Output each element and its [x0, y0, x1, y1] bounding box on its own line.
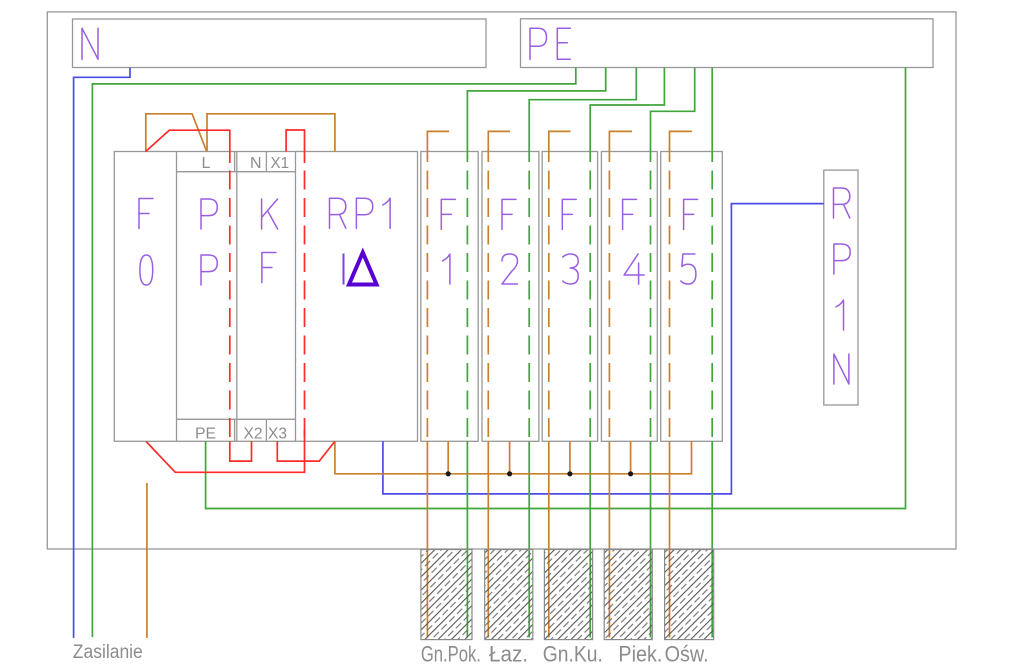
svg-text:X3: X3 [268, 426, 287, 443]
wire PE branch green to F4 [651, 68, 695, 638]
load box Gn.Pok. [421, 550, 472, 640]
svg-text:N: N [250, 155, 262, 172]
busbar PE box [521, 19, 934, 68]
RCD I-delta symbol [344, 253, 377, 285]
wire L branch orange F4 [609, 131, 632, 637]
busbar N box [73, 19, 487, 68]
wire red X3 to KF bottom [277, 441, 334, 461]
outer enclosure frame [47, 12, 956, 549]
wire L red X1 jog into RP1 [286, 130, 304, 441]
junction dots on phase bus [446, 471, 634, 476]
svg-text:Ośw.: Ośw. [665, 642, 709, 667]
svg-text:Łaz.: Łaz. [489, 642, 528, 667]
breaker column F5 box [661, 152, 723, 442]
main panel body [114, 152, 417, 442]
wire L jumper orange PP to KF [207, 114, 335, 152]
breaker F5 label [681, 199, 698, 284]
breaker column F1 box [421, 152, 478, 442]
svg-text:Piek.: Piek. [618, 642, 662, 667]
load box Laz. [485, 550, 533, 640]
breaker F4 label [623, 199, 645, 284]
wire L red F0 top to L terminal [146, 130, 230, 441]
svg-text:Gn.Pok.: Gn.Pok. [421, 642, 481, 667]
wire PE loop green right side to panel PE terminal [206, 68, 906, 509]
wire PE feed green from PE busbar to supply [92, 68, 575, 638]
wire L branch orange F1 [427, 131, 449, 637]
breaker column F4 box [601, 152, 657, 442]
terminal footer row PE X2 X3 [177, 419, 296, 441]
busbar N label [82, 28, 98, 59]
wire L jumper orange F0 to PP [146, 114, 207, 152]
breaker column F2 box [482, 152, 539, 442]
wire N link blue panel to RP1N [383, 204, 824, 494]
breaker F3 label [562, 199, 578, 284]
wire PE branch green to F1 [467, 68, 605, 638]
svg-text:X1: X1 [271, 155, 290, 172]
wire L branch orange F3 [549, 131, 571, 637]
wire PE branch green to F3 [590, 68, 664, 638]
switch PP label [201, 199, 217, 285]
svg-text:Gn.Ku.: Gn.Ku. [543, 642, 603, 667]
wire red RP1 bottom to F0 bottom [146, 430, 304, 473]
wire L branch orange F5 [670, 131, 692, 637]
wire red PP bottom to X2 [230, 441, 252, 461]
wire PE branch green to F5 [711, 68, 713, 638]
wire L branch orange F2 [488, 131, 510, 637]
breaker F0 label [139, 199, 153, 286]
load box Gn.Ku. [544, 550, 592, 640]
wire N feed blue from N busbar to supply [74, 68, 130, 638]
wire L phase bus orange below panel with risers [335, 441, 692, 474]
svg-text:PE: PE [195, 426, 216, 443]
busbar PE label [530, 28, 570, 59]
terminal header row L N X1 [177, 152, 296, 172]
svg-text:L: L [202, 155, 211, 172]
svg-text:Zasilanie: Zasilanie [73, 642, 143, 663]
wire L supply orange bottom [146, 483, 148, 638]
breaker F2 label [502, 199, 518, 284]
subpanel RP1N label [834, 188, 851, 384]
svg-text:X2: X2 [244, 426, 263, 443]
load box Osw. [665, 550, 714, 640]
wire PE branch green to F2 [529, 68, 636, 638]
contactor KF label [262, 199, 278, 283]
load box Piek. [604, 550, 652, 640]
breaker column F3 box [542, 152, 597, 442]
subpanel RP1N box [824, 170, 858, 405]
breaker F1 label [441, 199, 455, 284]
RCD RP1 label [330, 198, 391, 228]
